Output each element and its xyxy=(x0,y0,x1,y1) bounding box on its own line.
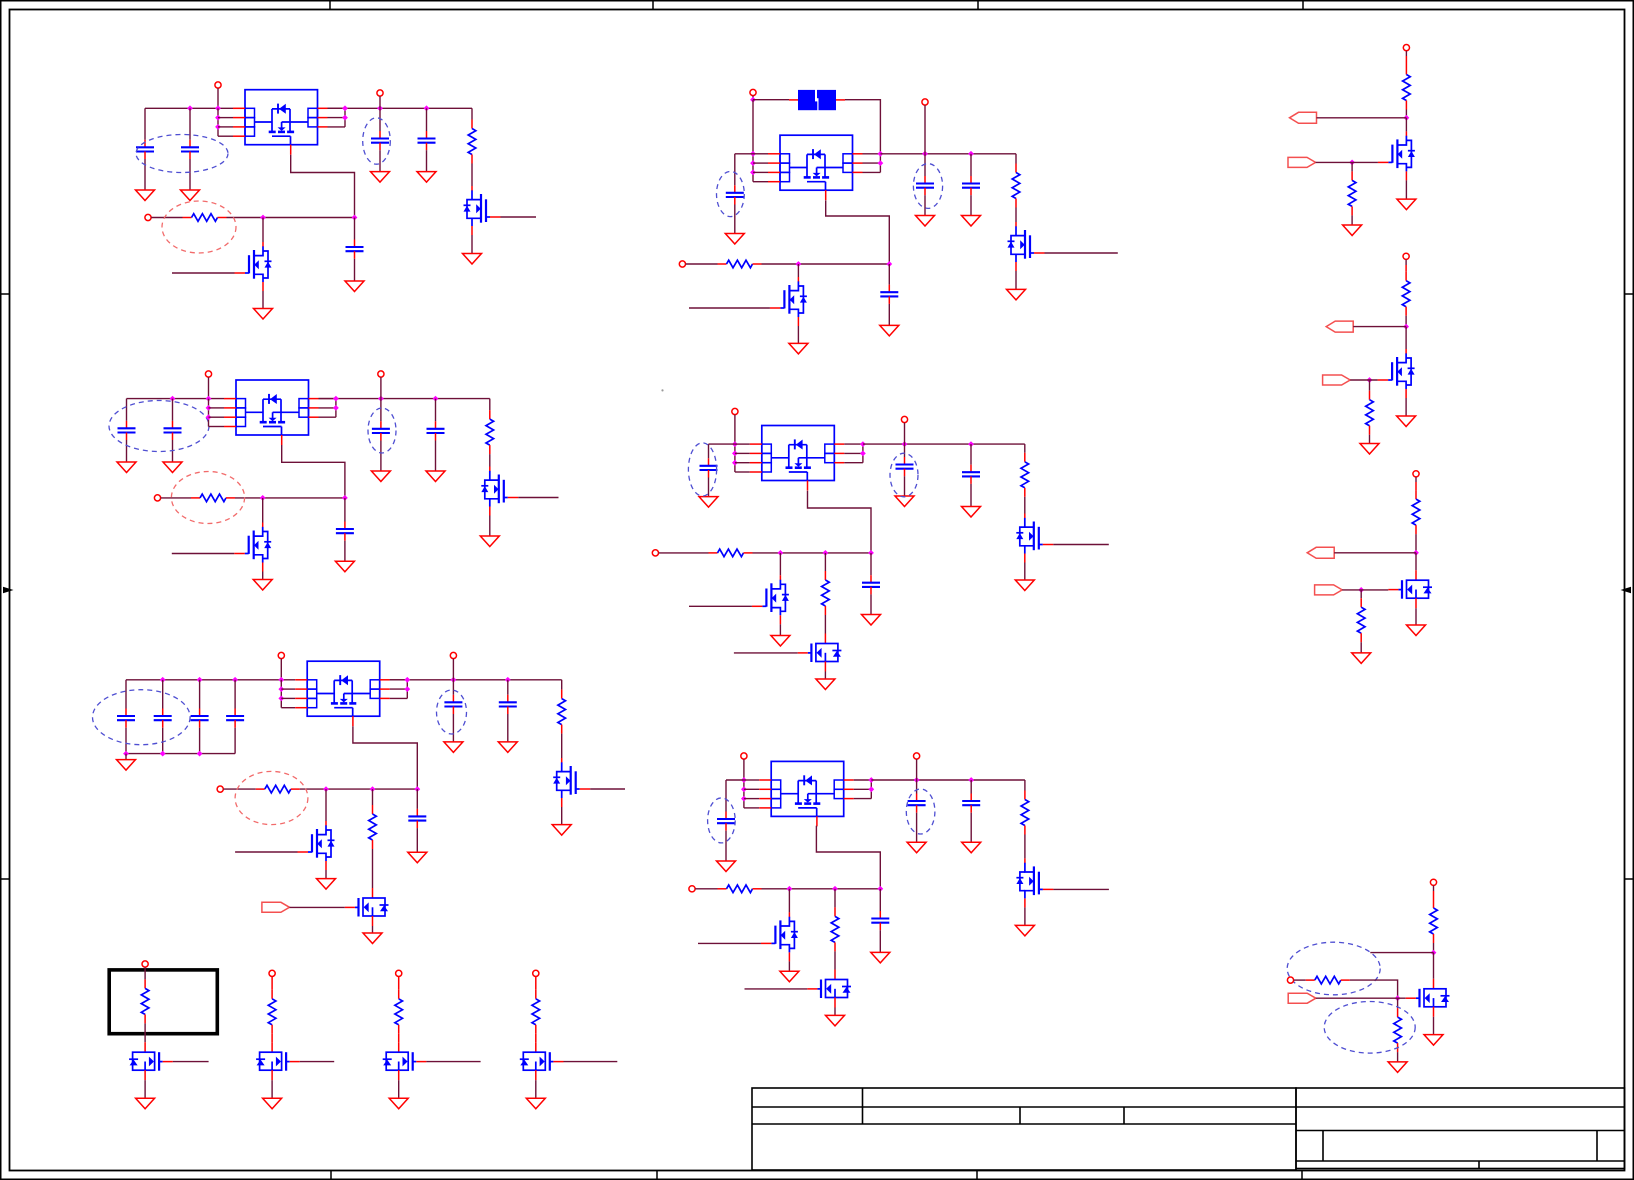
resistor R15 xyxy=(831,907,839,951)
wire xyxy=(863,153,881,155)
resistor R16 xyxy=(141,979,149,1023)
wire xyxy=(281,697,295,699)
N-MOSFET Q17 xyxy=(256,1042,300,1080)
resistor R26 xyxy=(1430,899,1438,943)
junction xyxy=(732,441,738,447)
ground xyxy=(789,343,808,354)
ground xyxy=(426,471,445,482)
wire xyxy=(1024,835,1026,859)
wire xyxy=(845,100,880,173)
junction xyxy=(878,160,884,166)
wire xyxy=(888,304,890,326)
ground xyxy=(480,536,499,547)
wire xyxy=(734,154,736,186)
wire xyxy=(970,195,972,215)
N-MOSFET Q18 xyxy=(383,1042,427,1080)
border tick xyxy=(976,1171,978,1180)
port P8 xyxy=(450,652,456,658)
wire gate xyxy=(689,605,752,607)
ground xyxy=(552,825,571,836)
junction xyxy=(1404,115,1410,121)
wire xyxy=(924,195,926,215)
border tick xyxy=(1625,878,1634,880)
highlight ellipse xyxy=(363,118,391,164)
wire xyxy=(1360,590,1362,598)
wire xyxy=(379,150,381,171)
border tick xyxy=(330,1171,332,1180)
wire xyxy=(162,680,164,709)
capacitor C10 xyxy=(336,522,354,541)
wire xyxy=(319,416,336,418)
port P3 xyxy=(145,214,151,220)
junction xyxy=(1367,377,1373,383)
fuse F1 xyxy=(789,90,845,110)
wire xyxy=(416,789,418,809)
wire xyxy=(471,108,473,119)
wire xyxy=(1405,118,1407,132)
N-MOSFET Q21 xyxy=(1378,349,1415,398)
wire xyxy=(1369,380,1371,391)
wire gate xyxy=(290,906,345,908)
port P26 xyxy=(1430,879,1436,885)
wire xyxy=(262,572,264,580)
wire xyxy=(144,1080,146,1098)
junction xyxy=(796,261,802,267)
wire cap bus xyxy=(126,753,235,755)
N-MOSFET Q13 xyxy=(1016,858,1053,907)
wire xyxy=(753,99,789,101)
border tick xyxy=(977,0,979,10)
wire xyxy=(1397,998,1399,1008)
wire xyxy=(1415,553,1417,570)
resistor R19 xyxy=(532,990,540,1034)
junction xyxy=(1395,995,1401,1001)
wire xyxy=(271,1080,273,1098)
ground xyxy=(871,952,890,963)
wire xyxy=(144,108,146,140)
wire xyxy=(452,659,454,680)
junction xyxy=(342,495,348,501)
wire VIN rail xyxy=(127,398,225,400)
junction xyxy=(860,451,866,457)
wire xyxy=(218,117,233,119)
wire xyxy=(1405,110,1407,118)
capacitor C11-14 xyxy=(154,709,172,728)
wire xyxy=(262,218,264,243)
ground xyxy=(371,172,390,183)
ground xyxy=(1424,1035,1443,1046)
ground xyxy=(826,1015,845,1026)
junction xyxy=(451,677,457,683)
resistor R25 xyxy=(1357,598,1365,642)
wire xyxy=(1433,943,1435,953)
junction xyxy=(206,396,212,402)
resistor R1 xyxy=(183,214,227,222)
N-MOSFET Q12 xyxy=(798,634,842,672)
ground xyxy=(417,172,436,183)
wire VOUT rail xyxy=(871,779,1025,781)
resistor R4 xyxy=(486,410,494,454)
wire output xyxy=(300,1061,334,1063)
junction xyxy=(414,786,420,792)
resistor R10 xyxy=(709,549,753,557)
wire xyxy=(125,728,127,754)
wire xyxy=(1024,497,1026,514)
wire xyxy=(398,977,400,990)
wire xyxy=(924,154,926,176)
N-MOSFET Q19 xyxy=(520,1042,564,1080)
wire xyxy=(125,754,127,760)
wire xyxy=(870,553,872,575)
wire xyxy=(708,444,710,458)
wire xyxy=(1405,316,1407,327)
junction xyxy=(778,550,784,556)
wire xyxy=(561,807,563,825)
resistor R22 xyxy=(1402,272,1410,316)
wire xyxy=(734,205,736,234)
wire gate net xyxy=(816,826,880,889)
resistor R17 xyxy=(268,990,276,1034)
ground xyxy=(181,190,200,201)
capacitor C23 xyxy=(896,457,914,476)
highlight ellipse xyxy=(708,798,736,843)
wire xyxy=(1397,1052,1399,1062)
wire gate xyxy=(235,851,297,853)
junction xyxy=(378,396,384,402)
resistor R14 xyxy=(1021,791,1029,835)
wire xyxy=(904,476,906,496)
ground xyxy=(136,190,155,201)
border tick xyxy=(652,0,654,10)
N-MOSFET Q4 xyxy=(234,523,271,572)
wire xyxy=(489,454,491,466)
wire xyxy=(708,478,710,497)
capacitor C29 xyxy=(871,911,889,930)
wire xyxy=(162,728,164,754)
wire xyxy=(281,688,295,690)
wire xyxy=(1415,482,1417,490)
N-MOSFET Q15 xyxy=(807,970,851,1008)
port P1 xyxy=(215,82,221,88)
wire xyxy=(1024,444,1026,453)
wire xyxy=(1405,56,1407,66)
resistor R7 xyxy=(369,805,377,849)
wire pin bus xyxy=(406,680,408,699)
wire gate xyxy=(734,652,798,654)
wire xyxy=(725,831,727,861)
dual P-MOSFET load switch U2 xyxy=(224,380,319,445)
wire net stub xyxy=(1370,952,1433,954)
stray mark xyxy=(661,389,663,391)
wire xyxy=(788,961,790,971)
junction xyxy=(860,441,866,447)
highlight ellipse xyxy=(688,443,716,496)
ground xyxy=(962,216,981,227)
wire xyxy=(879,930,881,952)
junction xyxy=(197,751,203,757)
ground xyxy=(725,234,744,245)
junction xyxy=(215,124,221,130)
capacitor C11-14 xyxy=(117,709,135,728)
wire enable net xyxy=(227,217,355,219)
N-MOSFET Q3 xyxy=(481,467,518,516)
border tick xyxy=(0,878,10,880)
wire enable net xyxy=(762,888,881,890)
N-MOSFET Q23 xyxy=(1406,979,1450,1017)
wire enable net xyxy=(235,497,345,499)
wire xyxy=(435,399,437,422)
N-MOSFET Q22 xyxy=(1388,570,1432,608)
port P27 xyxy=(1287,977,1293,983)
resistor R3 xyxy=(191,494,235,502)
wire xyxy=(561,680,563,690)
wire enable net xyxy=(753,552,872,554)
dual P-MOSFET load switch U4 xyxy=(768,135,863,200)
ground xyxy=(1397,199,1416,210)
wire xyxy=(1350,980,1398,998)
wire VOUT rail xyxy=(880,153,1016,155)
capacitor C24 xyxy=(962,465,980,484)
wire output xyxy=(1045,252,1118,254)
wire xyxy=(970,444,972,465)
wire output xyxy=(426,1061,480,1063)
wire xyxy=(788,889,790,913)
junction xyxy=(278,696,284,702)
dual P-MOSFET load switch U6 xyxy=(759,761,854,826)
wire xyxy=(199,728,201,754)
wire xyxy=(1351,215,1353,225)
wire xyxy=(834,1008,836,1016)
wire xyxy=(535,1034,537,1042)
wire xyxy=(1415,477,1417,482)
wire xyxy=(223,788,255,790)
border center arrow right xyxy=(1621,587,1632,593)
wire gate net xyxy=(826,200,890,264)
wire xyxy=(489,399,491,411)
ground xyxy=(1352,653,1371,664)
junction xyxy=(750,151,756,157)
capacitor C9 xyxy=(427,421,445,440)
wire xyxy=(1405,51,1407,56)
junction xyxy=(433,396,439,402)
ground xyxy=(1343,225,1362,236)
wire xyxy=(1015,271,1017,289)
wire xyxy=(380,441,382,472)
ground xyxy=(916,216,935,227)
wire xyxy=(797,326,799,343)
capacitor C20 xyxy=(962,176,980,195)
wire pin bus xyxy=(734,415,736,472)
wire xyxy=(1433,886,1435,892)
wire xyxy=(471,235,473,254)
ground xyxy=(389,1098,408,1109)
highlight ellipse xyxy=(1287,942,1380,995)
wire xyxy=(426,108,428,131)
wire xyxy=(390,697,408,699)
wire xyxy=(1415,534,1417,553)
wire gate xyxy=(698,942,761,944)
junction xyxy=(260,495,266,501)
wire xyxy=(1024,780,1026,791)
wire xyxy=(535,977,537,990)
junction xyxy=(278,677,284,683)
wire xyxy=(262,498,264,523)
port P9 xyxy=(217,786,223,792)
wire gate net xyxy=(282,445,345,498)
highlight ellipse xyxy=(109,401,209,452)
resistor R20 xyxy=(1403,66,1411,110)
wire xyxy=(234,728,236,754)
port P7 xyxy=(278,652,284,658)
port P16 xyxy=(741,753,747,759)
wire gate xyxy=(1316,161,1378,163)
junction xyxy=(832,886,838,892)
wire gate xyxy=(745,988,808,990)
junction xyxy=(333,396,339,402)
port P19 xyxy=(142,961,148,967)
junction xyxy=(370,786,376,792)
capacitor C21 xyxy=(880,285,898,304)
off-page connector xyxy=(262,902,290,912)
wire xyxy=(172,440,174,462)
wire xyxy=(1317,117,1407,119)
port P13 xyxy=(732,408,738,414)
junction xyxy=(968,151,974,157)
resistor R6 xyxy=(558,690,566,734)
border tick xyxy=(1301,1171,1303,1180)
wire gate xyxy=(172,553,234,555)
capacitor C2 xyxy=(181,140,199,159)
capacitor C8 xyxy=(372,421,390,440)
junction xyxy=(377,105,383,111)
wire xyxy=(970,813,972,843)
wire output xyxy=(501,216,537,218)
wire xyxy=(1433,891,1435,899)
junction xyxy=(404,686,410,692)
junction xyxy=(732,460,738,466)
port P20 xyxy=(269,970,275,976)
wire xyxy=(1415,608,1417,625)
wire xyxy=(1024,563,1026,581)
ground xyxy=(816,679,835,690)
wire xyxy=(125,680,127,709)
wire xyxy=(144,159,146,190)
border tick xyxy=(656,1171,658,1180)
wire xyxy=(218,126,233,128)
highlight ellipse xyxy=(913,164,942,209)
ground xyxy=(1007,289,1026,300)
wire enable net xyxy=(300,788,418,790)
wire xyxy=(709,443,735,445)
wire xyxy=(870,594,872,614)
wire xyxy=(779,553,781,575)
wire xyxy=(735,443,750,445)
wire output xyxy=(564,1061,618,1063)
wire xyxy=(854,798,872,800)
port P21 xyxy=(396,970,402,976)
junction xyxy=(160,677,166,683)
wire xyxy=(471,164,473,187)
junction xyxy=(968,441,974,447)
wire xyxy=(234,680,236,709)
ground xyxy=(136,1098,155,1109)
junction xyxy=(1413,550,1419,556)
N-MOSFET Q1 xyxy=(464,186,501,235)
wire xyxy=(1433,953,1435,979)
ground xyxy=(699,497,718,508)
ground xyxy=(962,507,981,518)
port P14 xyxy=(901,416,907,422)
port P24 xyxy=(1403,253,1409,259)
wire xyxy=(970,780,972,794)
ground xyxy=(263,1098,282,1109)
ground xyxy=(463,254,482,265)
wire xyxy=(916,780,918,794)
capacitor C15 xyxy=(444,695,462,714)
junction xyxy=(878,151,884,157)
dual P-MOSFET load switch U3 xyxy=(295,661,390,726)
wire xyxy=(144,967,146,979)
junction xyxy=(206,405,212,411)
wire xyxy=(735,153,753,155)
wire xyxy=(1405,398,1407,416)
wire xyxy=(863,171,881,173)
capacitor C26 xyxy=(717,812,735,831)
capacitor C18 xyxy=(726,185,744,204)
junction xyxy=(170,396,176,402)
wire xyxy=(1294,979,1306,981)
port P23 xyxy=(1403,45,1409,51)
ground xyxy=(317,879,336,890)
wire xyxy=(507,680,509,695)
wire xyxy=(452,680,454,695)
wire xyxy=(854,788,872,790)
wire xyxy=(744,788,759,790)
wire VIN rail xyxy=(328,107,473,109)
wire xyxy=(744,779,759,781)
wire xyxy=(390,688,408,690)
wire xyxy=(834,889,836,908)
ground xyxy=(335,561,354,572)
N-MOSFET Q14 xyxy=(761,912,798,961)
wire gate xyxy=(1316,997,1406,999)
wire gate xyxy=(1350,379,1377,381)
capacitor C3 xyxy=(371,131,389,150)
junction xyxy=(1403,324,1409,330)
wire xyxy=(779,624,781,635)
N-MOSFET Q9 xyxy=(770,277,807,326)
resistor R11 xyxy=(1021,453,1029,497)
wire xyxy=(379,96,381,108)
wire xyxy=(744,798,759,800)
capacitor C11-14 xyxy=(226,709,244,728)
off-page connector xyxy=(1315,585,1343,595)
ground xyxy=(444,742,463,753)
wire xyxy=(735,462,750,464)
junction xyxy=(868,777,874,783)
wire xyxy=(372,789,374,805)
wire xyxy=(209,426,225,428)
highlight ellipse xyxy=(437,690,467,734)
junction xyxy=(342,115,348,121)
ground xyxy=(1397,416,1416,427)
N-MOSFET Q20 xyxy=(1378,131,1415,180)
wire output xyxy=(1053,888,1109,890)
junction xyxy=(823,550,829,556)
capacitor C17 xyxy=(408,809,426,828)
component box outline xyxy=(109,970,217,1034)
off-page connector xyxy=(1326,321,1353,332)
